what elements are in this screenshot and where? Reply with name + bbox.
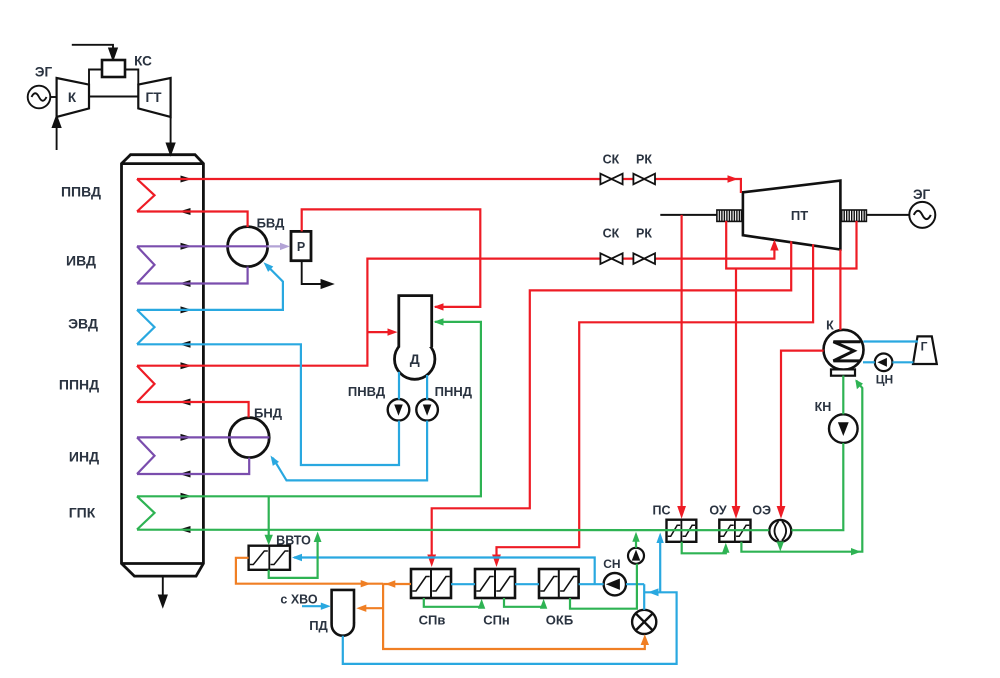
svg-text:ГПК: ГПК	[69, 505, 96, 521]
svg-text:СК: СК	[603, 227, 620, 241]
svg-text:Г: Г	[921, 340, 928, 354]
wire LP steam branch to deaerator left side	[367, 331, 394, 333]
heater SPv (upper network heater)	[411, 569, 451, 598]
wire to consumer valve	[643, 584, 645, 610]
wire K to KC	[89, 70, 102, 85]
wire PNVD pump to EVD inlet	[137, 344, 399, 465]
coil IND (LP evaporator) chevron	[137, 437, 155, 474]
arrow into BVD drum	[264, 262, 274, 272]
svg-text:ЦН: ЦН	[876, 373, 893, 387]
svg-text:ОЭ: ОЭ	[752, 504, 771, 518]
drum BND	[229, 418, 269, 458]
coil IVD (HP evaporator) chevron	[137, 246, 155, 283]
turbine shaft to generator	[866, 214, 909, 216]
heater PS (gland steam heater)	[667, 520, 697, 542]
coil IVD flow arrows	[181, 243, 193, 250]
svg-text:ПННД: ПННД	[435, 384, 473, 399]
arrow flash steam into deaerator	[434, 303, 444, 310]
wire s HVO makeup into PD	[302, 605, 328, 607]
wire HP steam PPVD to turbine	[137, 179, 741, 193]
expander vessel R	[291, 231, 311, 260]
wire SPv outlet to mixing point	[383, 583, 411, 585]
svg-text:ПТ: ПТ	[791, 208, 808, 223]
arrow SPv flow left into mix	[385, 580, 395, 587]
wire return loop PD to junction	[343, 592, 677, 664]
wire IVD outlet to BVD drum	[137, 245, 268, 247]
wire PS drain to OU	[682, 542, 726, 554]
wire LP steam PPND to turbine via valves	[137, 244, 774, 366]
stack exhaust arrow	[159, 576, 167, 606]
wire condenser hotwell to KN pump	[842, 376, 844, 415]
consumer valve (crossed circle)	[632, 610, 656, 634]
arrow drain pump line up	[632, 532, 639, 542]
svg-text:К: К	[826, 319, 834, 333]
svg-text:ГТ: ГТ	[146, 90, 163, 105]
arrow OE drain down	[777, 542, 784, 552]
pump CN (circulation)	[875, 354, 893, 372]
combustion chamber KC	[102, 60, 125, 77]
svg-text:ЭГ: ЭГ	[35, 65, 53, 80]
arrow VVTO return up	[314, 532, 322, 542]
valve RK2 (LP control valve)	[633, 253, 655, 264]
wire network water OKB-SN	[579, 583, 604, 585]
drum BVD	[228, 227, 268, 267]
arrow return loop junction	[648, 588, 659, 596]
svg-text:ПС: ПС	[652, 504, 670, 518]
ejector cooler OE	[769, 520, 791, 542]
wire BND drum to IND inlet	[137, 458, 249, 474]
arrow into VVTO right side	[292, 554, 302, 561]
arrow s HVO into PD	[321, 603, 331, 610]
wire IND outlet to BND drum	[137, 436, 269, 438]
coil PPVD flow arrows	[181, 176, 193, 183]
arrow PS drain into OU bottom	[722, 543, 729, 553]
svg-text:БВД: БВД	[257, 216, 286, 231]
wire SPv drain to SPn	[424, 598, 482, 607]
arrow drains into hotwell	[855, 380, 863, 390]
gas turbine GT	[138, 78, 170, 117]
svg-text:СПн: СПн	[483, 613, 510, 628]
svg-text:ПД: ПД	[309, 618, 328, 633]
svg-text:КС: КС	[134, 54, 152, 69]
wire network water SPv-SPn	[451, 583, 475, 585]
steam turbine PT	[743, 181, 841, 250]
wire main condensate KN to GPK inlet	[791, 443, 843, 530]
svg-text:СК: СК	[603, 153, 620, 167]
wire VVTO outlet back to condensate line	[269, 536, 318, 578]
coil IND flow arrows	[181, 434, 193, 441]
wire gland steam couplings header	[726, 221, 856, 269]
svg-text:ИВД: ИВД	[66, 253, 96, 269]
deaerator D column	[399, 296, 432, 347]
wire VVTO outlet to mixing point	[236, 558, 383, 584]
drain pump of OKB	[628, 548, 644, 564]
svg-text:Д: Д	[410, 351, 420, 367]
pump KN (condensate)	[829, 414, 858, 443]
air inlet arrow	[53, 117, 61, 151]
arrow into PS	[677, 506, 686, 519]
arrow makeup riser up	[656, 533, 663, 544]
wire turbine exhaust to condenser K	[839, 250, 841, 331]
wire extraction to SPv	[432, 241, 792, 560]
wire cooling water condenser to tower	[863, 340, 918, 342]
wire cooling water tower to CN to condenser	[863, 361, 875, 363]
wire makeup riser to condensate line	[659, 536, 661, 592]
svg-text:ВВТО: ВВТО	[276, 534, 311, 548]
svg-text:ОУ: ОУ	[709, 504, 726, 518]
feed tank PD	[332, 613, 354, 635]
coil PPND (LP superheater) chevron	[137, 366, 155, 402]
wire branch into PD	[360, 607, 383, 609]
wire drain pump to condensate line	[635, 535, 637, 548]
svg-text:К: К	[68, 90, 77, 105]
wire faded steam BVD to R expander	[268, 243, 290, 250]
HRSG boiler body	[122, 155, 204, 576]
wire gland steam shaft to PS	[680, 215, 682, 514]
shaft K-GT	[89, 96, 138, 98]
wire branch down into VVTO	[268, 496, 270, 541]
wire BVD drum to PPVD inlet	[137, 212, 248, 228]
arrow down into VVTO	[265, 535, 273, 546]
arrow into OU	[732, 506, 741, 519]
coupling right (ribbed)	[842, 210, 867, 221]
cooling tower G	[913, 336, 937, 364]
svg-text:ИНД: ИНД	[69, 449, 99, 465]
heat exchanger VVTO	[249, 546, 290, 570]
coil EVD (HP economizer) chevron	[137, 310, 155, 344]
svg-text:СПв: СПв	[419, 613, 446, 628]
heater OU (gland cooler)	[719, 520, 750, 542]
wire extraction to SPn	[497, 244, 814, 560]
svg-text:СН: СН	[603, 557, 620, 571]
heater SPn (lower network heater)	[475, 569, 515, 598]
arrow SPn drain into OKB bottom	[540, 599, 547, 609]
svg-text:ППВД: ППВД	[61, 184, 101, 200]
wire SPn drain to OKB	[504, 598, 544, 607]
condenser hotwell	[831, 369, 855, 375]
svg-text:ППНД: ППНД	[59, 377, 99, 393]
generator EG2	[909, 202, 935, 228]
coil EVD flow arrows	[181, 306, 193, 313]
arrow into BND drum	[271, 456, 280, 466]
svg-text:ЭГ: ЭГ	[913, 187, 931, 202]
drain from R with arrow	[302, 261, 332, 288]
generator EG1 (gas-turbine electric generator)	[28, 86, 57, 109]
wire condenser to OE ejector cooler	[781, 351, 824, 514]
svg-text:с ХВО: с ХВО	[280, 593, 317, 607]
svg-text:Р: Р	[297, 240, 305, 254]
condenser tube bundle symbol	[833, 342, 860, 361]
heater OKB (main bundle cooler)	[539, 569, 579, 598]
wire gland steam to OU	[735, 269, 737, 514]
wire mixing point down to consumer	[383, 584, 645, 649]
wire network water SPn-OKB	[515, 583, 539, 585]
arrow drain header right	[851, 548, 861, 555]
svg-text:РК: РК	[636, 227, 652, 241]
pump SN (network water)	[604, 573, 626, 595]
wire OKB drain to drain pump	[570, 564, 637, 609]
wire branch to VVTO	[294, 558, 595, 585]
wire network water SN suction	[626, 583, 644, 585]
fuel line with arrow into KC	[72, 45, 117, 59]
arrow HP steam into turbine	[728, 175, 739, 183]
coil GPK flow arrows	[181, 493, 193, 500]
wire deaerator to PNVD pump	[398, 372, 400, 400]
turbine shaft left stub	[660, 214, 717, 216]
wire OU and OE drains to condenser	[741, 381, 862, 552]
coil PPND flow arrows	[181, 362, 193, 369]
arrow into SPv	[427, 555, 436, 568]
coil PPVD (HP superheater) chevron	[137, 179, 155, 212]
wire KC to GT	[125, 70, 138, 85]
coupling left (ribbed)	[717, 210, 742, 221]
condenser K	[824, 330, 864, 370]
svg-text:ОКБ: ОКБ	[546, 613, 573, 628]
coil GPK (condensate preheater) chevron	[137, 496, 155, 529]
wire BND drum to PPND inlet	[137, 402, 249, 417]
deaerator D tank	[395, 339, 435, 379]
svg-text:КН: КН	[815, 400, 832, 414]
valve SK (HP stop valve)	[600, 174, 622, 185]
arrow SPv drain into SPn bottom	[478, 599, 485, 609]
wire GPK outlet to deaerator	[137, 322, 481, 496]
wire PNND pump to BND drum	[273, 421, 427, 481]
wire OE drain	[779, 542, 781, 547]
arrow into PD right side	[356, 605, 366, 612]
wire R flash steam to deaerator right side	[302, 209, 481, 307]
pump PNVD	[388, 399, 410, 421]
wire EVD outlet to BVD drum	[137, 265, 283, 310]
valve SK2 (LP stop valve)	[600, 253, 622, 264]
svg-text:БНД: БНД	[254, 406, 283, 421]
arrow into OE	[777, 506, 786, 519]
exhaust duct GT to HRSG	[167, 117, 175, 154]
svg-text:РК: РК	[636, 153, 652, 167]
svg-text:ЭВД: ЭВД	[68, 316, 98, 332]
wire deaerator to PNND pump	[426, 375, 428, 400]
compressor K	[57, 78, 89, 117]
arrow LP branch into deaerator	[388, 328, 398, 335]
arrow GPK line into deaerator	[434, 318, 444, 325]
pump PNND	[416, 399, 438, 421]
valve RK (HP control valve)	[633, 174, 655, 185]
arrow LP steam into turbine	[770, 240, 778, 251]
wire BVD drum to IVD inlet	[137, 267, 248, 284]
arrow VVTO flow right into mix	[361, 580, 371, 587]
arrow up into consumer valve	[641, 634, 649, 645]
svg-text:ПНВД: ПНВД	[348, 384, 386, 399]
arrow into SPn	[492, 555, 501, 568]
